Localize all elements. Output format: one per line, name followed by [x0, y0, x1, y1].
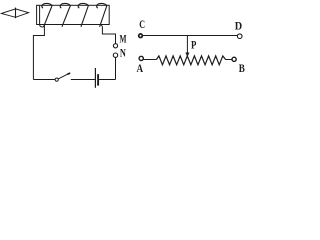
wire: C to D top line — [142, 35, 237, 37]
wire: resistor to B — [226, 59, 233, 61]
coil turn 1 — [42, 3, 52, 26]
terminal M — [113, 44, 117, 48]
terminal A — [139, 56, 143, 60]
wire: N down to bottom-right corner — [115, 58, 117, 80]
wire: A to resistor — [143, 59, 156, 61]
terminal B — [232, 57, 236, 61]
solenoid coil L1 : core rectangle — [37, 5, 110, 24]
svg-text:A: A — [137, 63, 144, 75]
coil turn 2 — [60, 3, 70, 26]
svg-text:C: C — [139, 19, 145, 31]
svg-text:N: N — [120, 48, 126, 60]
coil bottom-left u-turn to left lead — [40, 25, 45, 27]
wire: coil right lead to terminal M — [101, 25, 116, 44]
coil turn 3 — [78, 3, 88, 26]
compass needle — [1, 8, 29, 19]
switch S (open) — [55, 73, 70, 81]
terminal C — [139, 34, 143, 38]
terminal N — [113, 53, 117, 57]
svg-text:D: D — [235, 21, 242, 33]
coil turn 4 — [97, 3, 107, 26]
battery cell: long thin positive plate — [94, 68, 96, 88]
coil winding start (vertical turn) — [39, 5, 41, 24]
svg-text:P: P — [191, 40, 196, 52]
svg-text:M: M — [120, 34, 127, 46]
wire: battery to bottom-right corner — [99, 79, 115, 81]
svg-text:B: B — [239, 63, 245, 75]
wiper P arm with arrow — [186, 36, 190, 57]
wire: coil left lead down-left-down to bottom wire — [33, 25, 44, 80]
terminal D — [237, 34, 242, 39]
battery cell: short thick negative plate — [97, 74, 99, 86]
wire: bottom left segment — [33, 79, 55, 81]
resistor wire A-B (zigzag) — [156, 56, 225, 65]
wire: switch to battery — [71, 79, 95, 81]
